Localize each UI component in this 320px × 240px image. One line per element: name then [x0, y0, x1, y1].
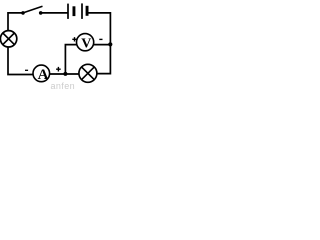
node: junction of voltmeter lead with right wire	[108, 42, 112, 46]
svg-text:A: A	[38, 67, 49, 83]
lamp L2 cross	[82, 67, 95, 80]
battery cell 1 short thick plate	[73, 6, 76, 16]
switch S blade (open)	[23, 6, 43, 13]
wire: voltmeter left lead down to bottom wire	[65, 45, 76, 74]
lamp L1 cross	[3, 33, 15, 45]
ammeter A circle	[33, 65, 50, 82]
label - at voltmeter right	[99, 38, 102, 40]
lamp L1 (top-left) circle	[0, 31, 16, 47]
switch S right contact dot	[39, 11, 43, 15]
battery cell 2 long plate	[81, 3, 83, 19]
wire: left side down from lamp L1 to bottom-left corner and to ammeter	[8, 47, 33, 75]
switch S left contact dot	[21, 11, 25, 15]
wire: top-left vertical + top horizontal to switch	[8, 13, 23, 31]
node: junction of voltmeter lead with bottom wire	[63, 72, 67, 76]
wire: voltmeter right lead	[94, 44, 111, 46]
svg-text:V: V	[81, 37, 91, 52]
svg-text:anfen: anfen	[51, 81, 76, 89]
voltmeter V circle	[77, 34, 94, 51]
lamp L2 (bottom-right) circle	[79, 64, 97, 82]
label - at ammeter left	[25, 69, 28, 71]
label + at voltmeter left	[72, 37, 76, 41]
battery cell 1 long plate	[67, 4, 69, 19]
wire: battery to top-right corner, down right side, to lamp L2	[89, 13, 111, 74]
battery cell 2 short thick plate	[86, 6, 89, 16]
wire: switch to battery	[41, 12, 68, 14]
wire: bottom middle between ammeter and lamp L2	[50, 73, 79, 75]
label + at ammeter right	[56, 67, 61, 72]
